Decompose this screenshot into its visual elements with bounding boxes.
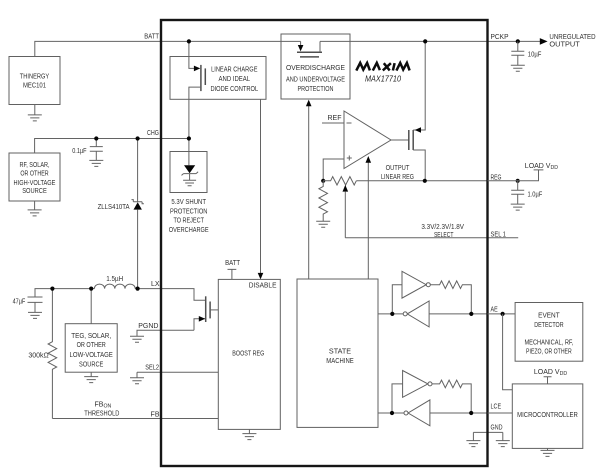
- svg-text:MAX17710: MAX17710: [365, 74, 401, 83]
- transistor linear charge PMOS drain stub: [189, 41, 194, 68]
- svg-text:PGND: PGND: [138, 323, 158, 330]
- arrowhead into boost NMOS source: [199, 316, 205, 322]
- wire FB external: [52, 418, 218, 420]
- node CHG schottky: [136, 136, 140, 140]
- battery box THINERGY MEC101: [9, 57, 60, 105]
- node AE right: [469, 312, 473, 316]
- wire AE from state machine to pin: [378, 313, 488, 315]
- svg-text:PIEZO, OR OTHER: PIEZO, OR OTHER: [526, 348, 572, 355]
- svg-text:AND IDEAL: AND IDEAL: [219, 76, 251, 83]
- wire LX external: [35, 289, 161, 297]
- svg-text:OUTPUT: OUTPUT: [386, 165, 410, 172]
- wire AE branch to microcontroller: [503, 314, 513, 390]
- svg-text:1.5µH: 1.5µH: [106, 276, 123, 283]
- node BATT rail and pass PMOS: [423, 39, 427, 43]
- node LX TEG: [89, 287, 93, 291]
- boost NMOS gate bar: [209, 302, 211, 319]
- wire op-amp output to pass PMOS gate: [391, 139, 409, 141]
- ground below 1.0uF: [511, 204, 525, 210]
- wire DISABLE from linear charge box to boost reg: [260, 99, 262, 273]
- wire state machine to op-amp (up arrow): [367, 163, 369, 280]
- wire CHG (pin to external sources): [35, 139, 189, 154]
- boost NMOS gate wire: [210, 309, 218, 311]
- svg-text:OVERCHARGE: OVERCHARGE: [169, 227, 209, 234]
- node REG 1.0uF: [516, 179, 520, 183]
- node AE external branch: [501, 312, 505, 316]
- svg-text:DETECTOR: DETECTOR: [534, 322, 563, 329]
- wire wiper to SELECT: [344, 192, 346, 238]
- resistor divider lower vertical: [319, 181, 328, 221]
- svg-text:UNREGULATED: UNREGULATED: [549, 34, 595, 41]
- wire SEL2: [137, 372, 218, 378]
- svg-text:LCE: LCE: [491, 404, 502, 411]
- node CHG 0.1uF: [94, 136, 98, 140]
- svg-text:MECHANICAL, RF,: MECHANICAL, RF,: [524, 339, 573, 346]
- wire BATT external (battery to BATT pin): [35, 41, 161, 56]
- svg-text:0.1µF: 0.1µF: [72, 148, 86, 155]
- svg-text:REF: REF: [328, 115, 342, 122]
- wire AE external: [488, 313, 516, 315]
- wire RF source to ground: [34, 201, 36, 210]
- svg-text:MACHINE: MACHINE: [326, 358, 354, 365]
- ground below RF source: [28, 210, 42, 216]
- arrowhead wiper up into divider resistor: [343, 185, 349, 192]
- svg-text:10µF: 10µF: [528, 51, 542, 58]
- block box MICROCONTROLLER: [512, 384, 583, 449]
- transistor pass PMOS gate bar: [408, 130, 410, 150]
- inverter AE top: [402, 271, 426, 298]
- overdischarge MOSFET right stub: [319, 41, 321, 52]
- svg-text:DIODE CONTROL: DIODE CONTROL: [210, 86, 258, 93]
- zener diode shunt: [182, 165, 199, 180]
- linear PMOS gate bar: [204, 68, 206, 85]
- ground GND external: [496, 441, 510, 447]
- resistor AE latch: [430, 281, 471, 314]
- arrowhead DISABLE down: [258, 273, 264, 280]
- capacitor 47uF: [13, 297, 43, 312]
- boost NMOS source to PGND: [194, 319, 205, 331]
- svg-text:LOW-VOLTAGE: LOW-VOLTAGE: [70, 352, 114, 359]
- svg-text:TEG, SOLAR,: TEG, SOLAR,: [71, 333, 111, 340]
- wire LCE from state machine to pin: [378, 412, 488, 414]
- wire SELECT to SEL1 pin: [345, 237, 518, 239]
- wire BATT internal right segment: [320, 40, 488, 42]
- capacitor 0.1uF: [72, 139, 103, 161]
- inverter AE bottom: [407, 301, 429, 327]
- ground SEL2: [130, 378, 144, 384]
- svg-text:SOURCE: SOURCE: [79, 362, 104, 369]
- wire CHG to schottky cathode: [137, 139, 139, 202]
- wire BATT stub: [228, 269, 237, 279]
- ground below boost reg: [242, 429, 256, 439]
- block box STATE MACHINE: [297, 279, 378, 427]
- svg-text:3.3V/2.3V/1.8V: 3.3V/2.3V/1.8V: [421, 224, 464, 231]
- svg-text:SOURCE: SOURCE: [22, 188, 47, 195]
- svg-text:FBON: FBON: [95, 401, 112, 409]
- svg-text:STATE: STATE: [329, 348, 352, 355]
- svg-text:OR OTHER: OR OTHER: [20, 171, 48, 178]
- transistor boost NMOS channel bar: [205, 296, 207, 322]
- svg-text:LX: LX: [151, 281, 160, 288]
- bubble LCE top inverter: [428, 382, 432, 386]
- transistor inside overdischarge box left stub: [300, 41, 302, 45]
- svg-text:LOAD VDD: LOAD VDD: [525, 163, 558, 171]
- ground below TEG: [84, 372, 98, 382]
- block box EVENT DETECTOR: [515, 303, 583, 362]
- svg-text:ZLLS410TA: ZLLS410TA: [98, 204, 130, 211]
- node REG and pass PMOS: [423, 179, 427, 183]
- block box linear charge and ideal diode control: [170, 57, 266, 100]
- svg-text:MEC101: MEC101: [23, 83, 46, 90]
- svg-text:FB: FB: [151, 411, 160, 418]
- node LCE right: [469, 411, 473, 415]
- svg-text:GND: GND: [491, 424, 503, 431]
- resistor feedback divider horizontal: [323, 177, 356, 185]
- wire PGND external: [137, 330, 194, 336]
- svg-text:THINERGY: THINERGY: [20, 73, 50, 80]
- wire LCE branch to top inverter: [392, 384, 403, 413]
- svg-text:AE: AE: [491, 307, 498, 314]
- svg-text:MICROCONTROLLER: MICROCONTROLLER: [517, 412, 578, 419]
- wire LOAD VDD stub to microcontroller: [544, 377, 552, 384]
- arrowhead up into overdischarge box: [306, 100, 312, 107]
- svg-text:PROTECTION: PROTECTION: [298, 86, 334, 93]
- ground below THINERGY: [28, 115, 42, 121]
- node LX 47uF: [50, 287, 54, 291]
- svg-text:DISABLE: DISABLE: [249, 283, 277, 290]
- node CHG shunt: [187, 136, 191, 140]
- resistor LCE latch: [432, 380, 471, 413]
- svg-text:OR OTHER: OR OTHER: [77, 342, 106, 349]
- ground PGND: [130, 336, 144, 342]
- wire schottky anode to LX: [137, 210, 139, 289]
- wire PCKP external: [488, 40, 541, 42]
- arrowhead unregulated output: [540, 38, 548, 45]
- block box BOOST REG: [218, 279, 280, 429]
- linear PMOS source path to CHG: [189, 87, 201, 138]
- svg-text:5.3V SHUNT: 5.3V SHUNT: [171, 199, 206, 206]
- svg-text:LINEAR CHARGE: LINEAR CHARGE: [211, 67, 258, 74]
- logo MAXIM: [356, 63, 409, 71]
- wire LCE external: [488, 412, 513, 414]
- svg-text:LOAD VDD: LOAD VDD: [534, 369, 567, 377]
- block box 5.3V shunt protection: [170, 152, 207, 193]
- svg-text:THRESHOLD: THRESHOLD: [84, 411, 119, 418]
- svg-text:AND UNDERVOLTAGE: AND UNDERVOLTAGE: [286, 76, 345, 83]
- bubble LCE bottom inverter: [404, 411, 408, 415]
- capacitor 10uF: [511, 41, 541, 65]
- IC boundary box MAX17710: [161, 20, 488, 466]
- svg-text:TO REJECT: TO REJECT: [173, 218, 204, 225]
- overdischarge MOSFET gate bar: [300, 56, 319, 58]
- arrowhead into linear PMOS: [194, 66, 200, 72]
- bubble AE bottom inverter: [403, 312, 407, 316]
- svg-text:PCKP: PCKP: [491, 34, 509, 41]
- bubble AE top inverter: [426, 283, 430, 287]
- svg-text:HIGH-VOLTAGE: HIGH-VOLTAGE: [14, 180, 56, 187]
- pass PMOS source to REG: [413, 150, 425, 181]
- source box RF solar high-voltage: [9, 153, 60, 201]
- wire BATT internal left segment: [161, 40, 301, 42]
- ground inside shunt box: [183, 180, 196, 186]
- resistor 300k: [28, 289, 56, 419]
- svg-text:LINEAR REG: LINEAR REG: [381, 174, 414, 181]
- arrowhead up into op-amp: [366, 156, 372, 163]
- op-amp U1 output linear reg error amp: [322, 111, 391, 169]
- ground below 47uF: [28, 312, 42, 318]
- svg-text:47µF: 47µF: [13, 299, 26, 306]
- svg-text:BOOST REG: BOOST REG: [232, 350, 264, 357]
- ground below 0.1uF: [89, 160, 103, 166]
- svg-text:OUTPUT: OUTPUT: [549, 41, 580, 48]
- node BATT and linear charge: [187, 39, 191, 43]
- svg-text:300kΩ: 300kΩ: [28, 353, 48, 360]
- svg-text:1.0µF: 1.0µF: [528, 191, 543, 198]
- pass PMOS drain to BATT rail: [413, 41, 425, 130]
- ground GND internal: [466, 441, 480, 447]
- node divider junction: [321, 179, 325, 183]
- node PCKP 10uF: [516, 39, 520, 43]
- wire GND pin: [473, 432, 502, 440]
- ground below divider resistor: [316, 221, 330, 227]
- wire REG to LOAD VDD: [488, 170, 544, 181]
- svg-text:BATT: BATT: [225, 260, 241, 267]
- diode ZLLS410TA schottky: [98, 200, 144, 211]
- overdischarge MOSFET channel bar: [297, 51, 322, 53]
- svg-text:SELECT: SELECT: [434, 232, 454, 239]
- wire state machine to overdischarge (up arrow): [308, 106, 310, 279]
- svg-text:CHG: CHG: [147, 130, 159, 137]
- svg-text:SEL2: SEL2: [145, 365, 159, 372]
- arrowhead down into overdischarge MOSFET: [298, 45, 304, 51]
- node LCE left: [390, 411, 394, 415]
- label 5.3V shunt protection text: [169, 199, 209, 234]
- node LX schottky: [136, 287, 140, 291]
- svg-text:SEL 1: SEL 1: [491, 232, 507, 239]
- wire REG from divider to pin: [356, 180, 487, 182]
- svg-text:BATT: BATT: [144, 34, 159, 41]
- ground below 10uF: [511, 65, 525, 71]
- svg-text:PROTECTION: PROTECTION: [170, 208, 207, 215]
- wire op-amp plus input to divider node: [323, 159, 344, 181]
- inverter LCE top: [403, 371, 428, 398]
- wire battery to ground: [34, 105, 36, 115]
- arrowhead into pass PMOS drain: [415, 127, 421, 132]
- source box TEG solar low-voltage: [65, 289, 117, 373]
- svg-text:OVERDISCHARGE: OVERDISCHARGE: [286, 65, 345, 72]
- svg-text:EVENT: EVENT: [538, 312, 560, 319]
- pass PMOS channel bar: [412, 130, 414, 150]
- inductor 1.5uH: [94, 276, 135, 288]
- svg-text:RF, SOLAR,: RF, SOLAR,: [20, 162, 50, 169]
- linear PMOS channel bar: [200, 65, 202, 91]
- wire CHG to shunt zener: [188, 139, 190, 166]
- wire LX internal to boost NMOS: [161, 289, 205, 301]
- wire AE branch to top inverter: [392, 285, 402, 314]
- ground below microcontroller: [541, 448, 555, 456]
- capacitor 1.0uF: [511, 181, 542, 204]
- node AE left: [390, 312, 394, 316]
- inverter LCE bottom: [408, 400, 430, 426]
- block box overdischarge protection: [281, 34, 350, 99]
